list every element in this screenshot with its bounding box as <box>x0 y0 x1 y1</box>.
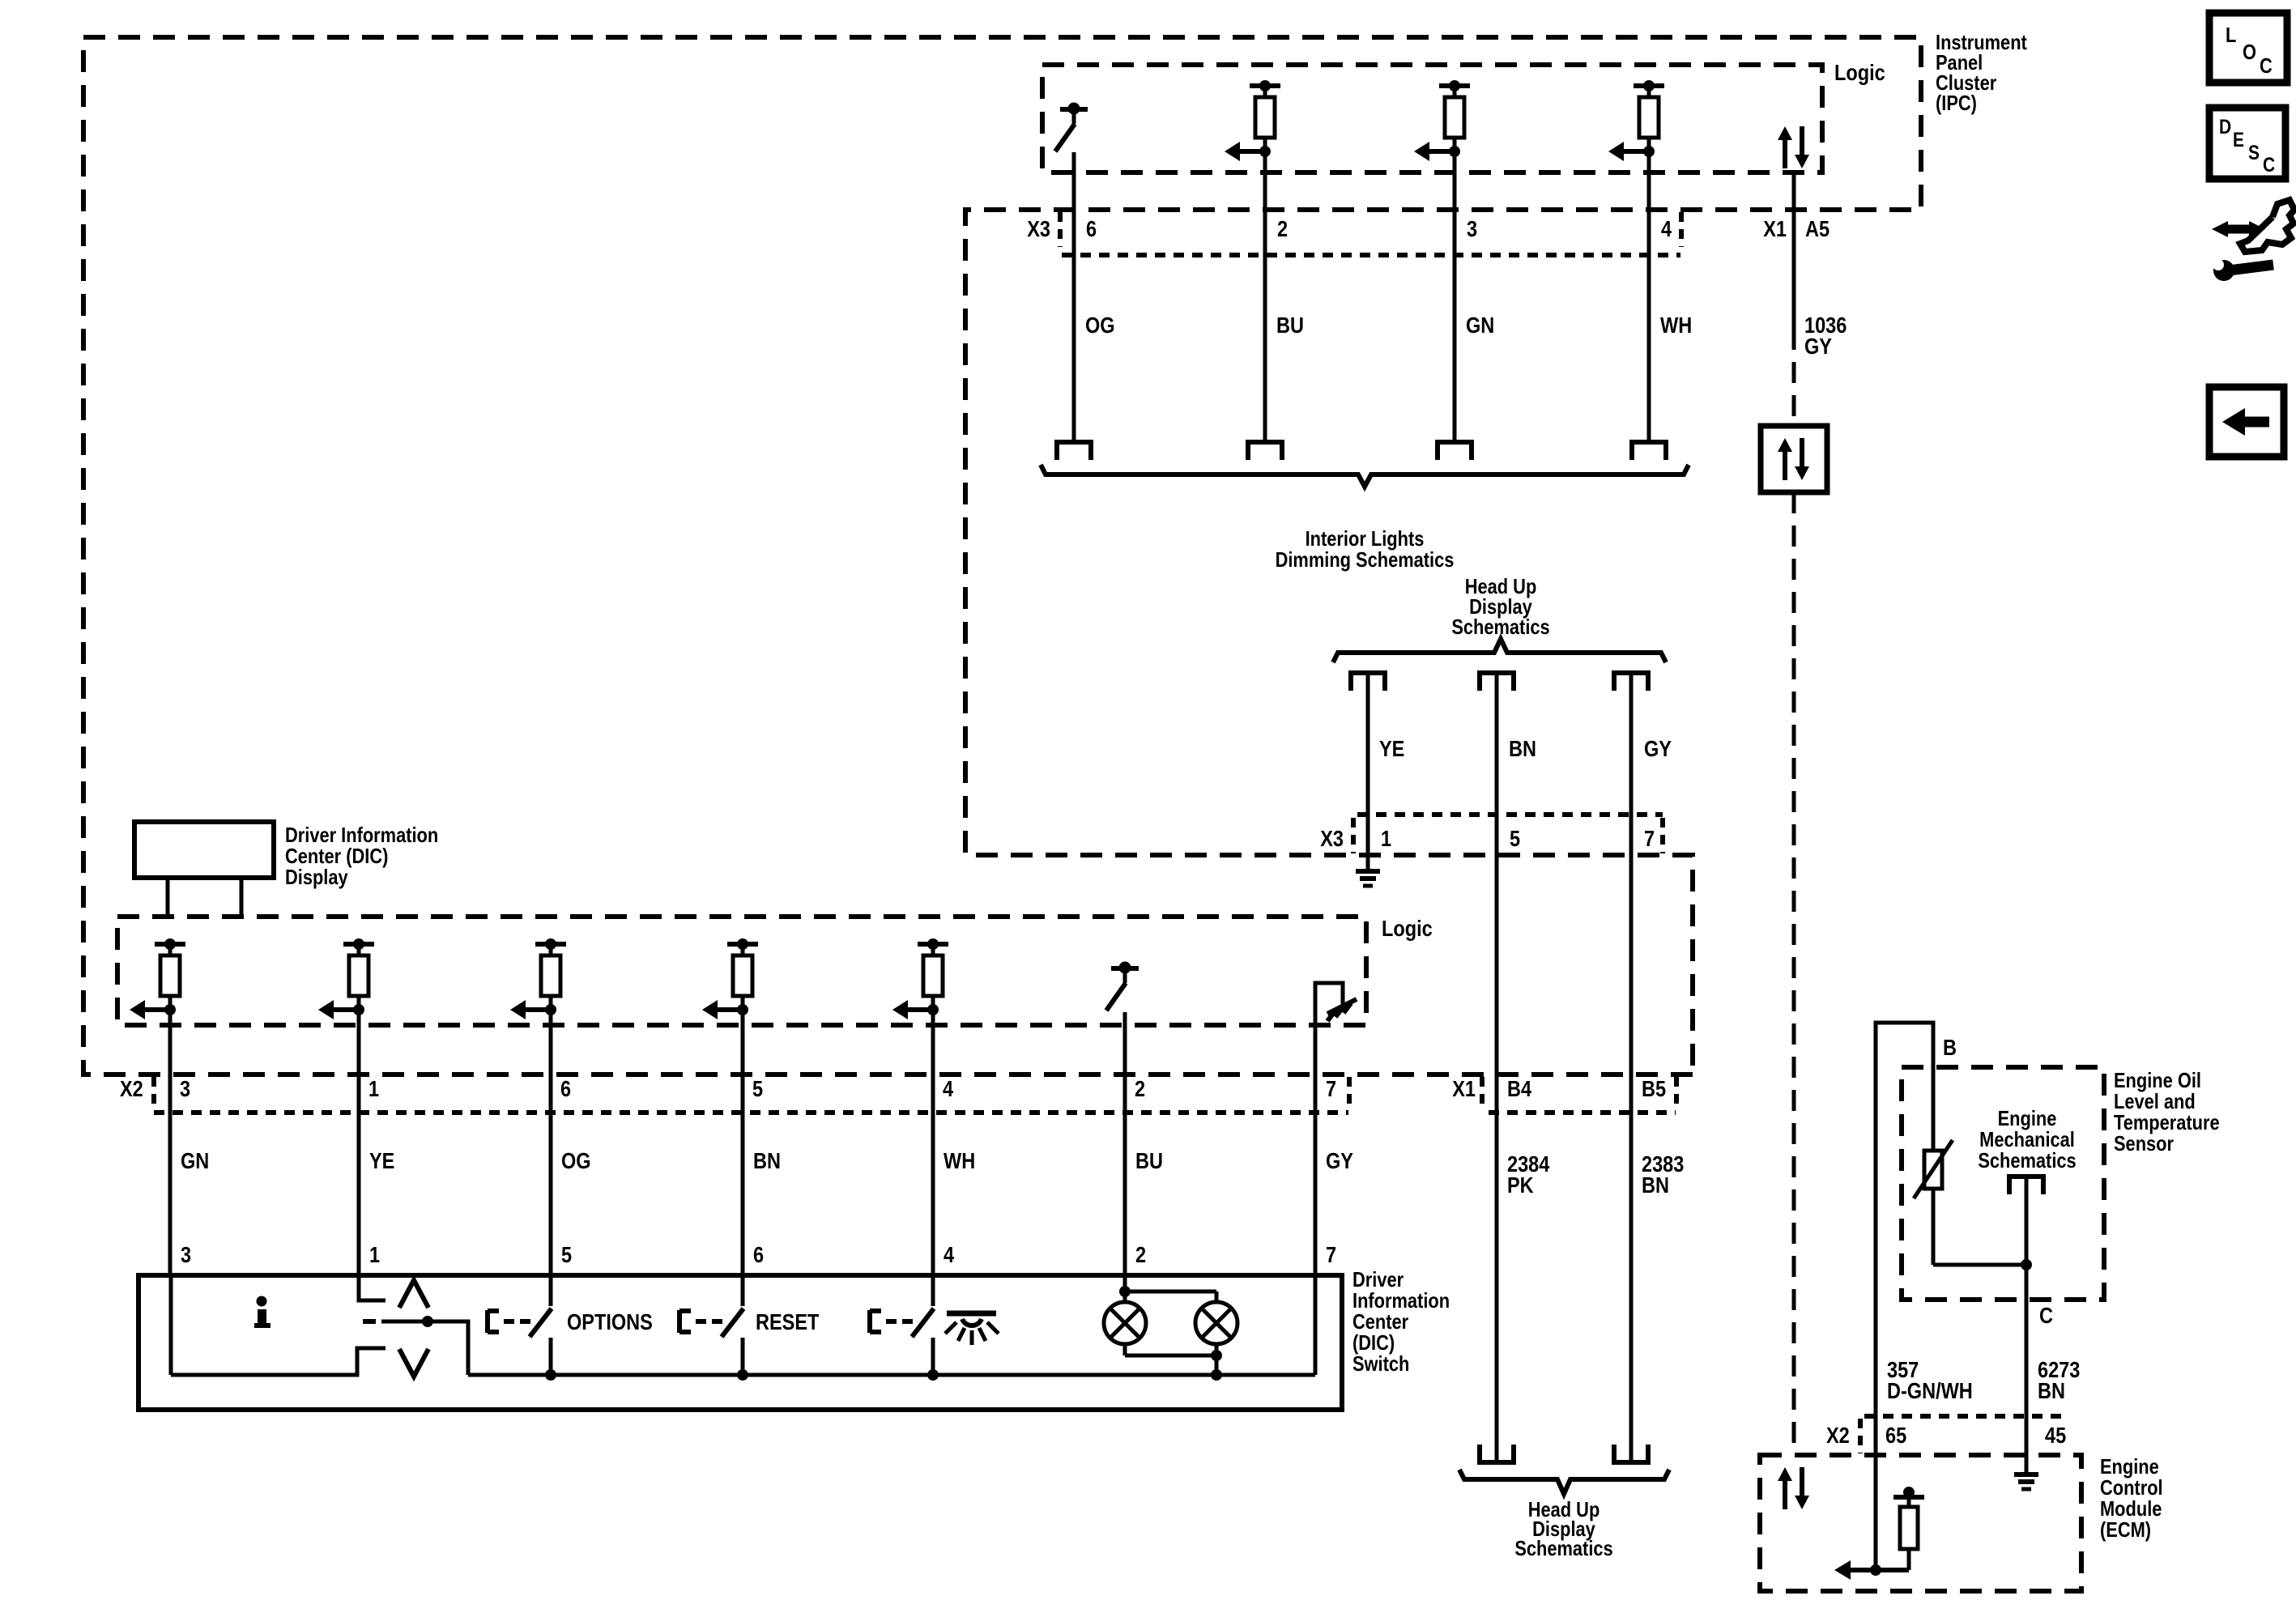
svg-text:7: 7 <box>1326 1077 1336 1101</box>
svg-text:RESET: RESET <box>756 1310 820 1334</box>
svg-text:X2: X2 <box>120 1077 143 1101</box>
svg-text:B4: B4 <box>1507 1077 1532 1101</box>
svg-text:L: L <box>2226 23 2236 47</box>
svg-text:Center (DIC): Center (DIC) <box>285 845 388 868</box>
svg-text:WH: WH <box>944 1149 975 1173</box>
svg-text:OPTIONS: OPTIONS <box>567 1310 653 1334</box>
svg-text:5: 5 <box>1510 827 1520 851</box>
svg-text:3: 3 <box>181 1243 191 1267</box>
svg-text:WH: WH <box>1660 313 1692 338</box>
svg-text:D-GN/WH: D-GN/WH <box>1887 1379 1973 1403</box>
svg-text:2: 2 <box>1135 1243 1146 1267</box>
svg-text:D: D <box>2219 115 2231 138</box>
svg-text:S: S <box>2248 141 2260 164</box>
svg-text:X3: X3 <box>1027 217 1050 241</box>
svg-text:Driver: Driver <box>1352 1268 1404 1291</box>
svg-text:Temperature: Temperature <box>2114 1111 2220 1134</box>
svg-text:6: 6 <box>1086 217 1097 241</box>
svg-text:X1: X1 <box>1763 217 1787 241</box>
svg-text:Engine Oil: Engine Oil <box>2114 1069 2201 1092</box>
svg-text:Driver Information: Driver Information <box>285 823 438 847</box>
svg-text:B: B <box>1943 1036 1957 1060</box>
svg-text:X1: X1 <box>1452 1077 1476 1101</box>
svg-text:2: 2 <box>1277 217 1288 241</box>
svg-text:PK: PK <box>1507 1173 1534 1198</box>
svg-text:Dimming Schematics: Dimming Schematics <box>1276 548 1455 572</box>
svg-text:BU: BU <box>1135 1149 1163 1173</box>
svg-text:7: 7 <box>1644 827 1655 851</box>
svg-text:E: E <box>2233 128 2244 151</box>
svg-text:X3: X3 <box>1320 827 1344 851</box>
svg-text:6: 6 <box>753 1243 764 1267</box>
svg-text:Display: Display <box>285 866 348 889</box>
svg-text:4: 4 <box>943 1077 954 1101</box>
svg-text:GY: GY <box>1644 737 1672 761</box>
svg-text:4: 4 <box>944 1243 955 1267</box>
svg-text:BN: BN <box>2038 1379 2065 1403</box>
svg-text:Module: Module <box>2100 1497 2162 1521</box>
svg-text:O: O <box>2243 40 2256 64</box>
svg-text:7: 7 <box>1326 1243 1336 1267</box>
svg-text:1: 1 <box>368 1077 379 1101</box>
svg-text:(IPC): (IPC) <box>1936 91 1977 115</box>
svg-text:OG: OG <box>1085 313 1115 338</box>
svg-text:C: C <box>2039 1304 2053 1328</box>
svg-text:45: 45 <box>2045 1423 2066 1448</box>
svg-text:5: 5 <box>561 1243 572 1267</box>
svg-text:YE: YE <box>369 1149 394 1173</box>
svg-text:Schematics: Schematics <box>1978 1149 2076 1172</box>
svg-text:B5: B5 <box>1642 1077 1666 1101</box>
svg-text:C: C <box>2260 54 2273 78</box>
svg-text:GY: GY <box>1804 334 1832 359</box>
svg-text:Engine: Engine <box>1998 1107 2057 1130</box>
svg-text:Interior Lights: Interior Lights <box>1306 527 1425 551</box>
svg-text:GN: GN <box>181 1149 209 1173</box>
svg-text:1: 1 <box>369 1243 380 1267</box>
svg-text:(DIC): (DIC) <box>1352 1331 1395 1355</box>
svg-text:Control: Control <box>2100 1476 2163 1500</box>
svg-text:C: C <box>2263 153 2275 176</box>
svg-text:Information: Information <box>1352 1289 1450 1313</box>
svg-text:BN: BN <box>1509 737 1536 761</box>
svg-text:3: 3 <box>180 1077 190 1101</box>
svg-text:Schematics: Schematics <box>1514 1537 1612 1560</box>
svg-text:OG: OG <box>561 1149 591 1173</box>
svg-text:Mechanical: Mechanical <box>1979 1128 2075 1151</box>
svg-text:YE: YE <box>1379 737 1404 761</box>
svg-text:GY: GY <box>1326 1149 1353 1173</box>
svg-text:X2: X2 <box>1826 1423 1850 1448</box>
svg-text:Switch: Switch <box>1352 1352 1409 1376</box>
svg-text:65: 65 <box>1885 1423 1906 1448</box>
svg-text:Center: Center <box>1352 1310 1408 1334</box>
svg-text:Level and: Level and <box>2114 1090 2196 1113</box>
svg-text:3: 3 <box>1467 217 1477 241</box>
svg-text:Logic: Logic <box>1382 917 1433 941</box>
svg-text:Sensor: Sensor <box>2114 1132 2174 1155</box>
svg-text:5: 5 <box>752 1077 763 1101</box>
svg-text:GN: GN <box>1466 313 1494 338</box>
svg-text:4: 4 <box>1661 217 1672 241</box>
svg-text:(ECM): (ECM) <box>2100 1518 2151 1542</box>
svg-text:1: 1 <box>1381 827 1391 851</box>
svg-text:A5: A5 <box>1805 217 1830 241</box>
svg-text:BN: BN <box>1642 1173 1669 1198</box>
svg-text:Logic: Logic <box>1834 61 1885 85</box>
svg-text:6: 6 <box>560 1077 571 1101</box>
svg-text:2: 2 <box>1135 1077 1145 1101</box>
svg-text:BU: BU <box>1276 313 1304 338</box>
svg-text:BN: BN <box>753 1149 781 1173</box>
svg-text:Engine: Engine <box>2100 1455 2159 1479</box>
